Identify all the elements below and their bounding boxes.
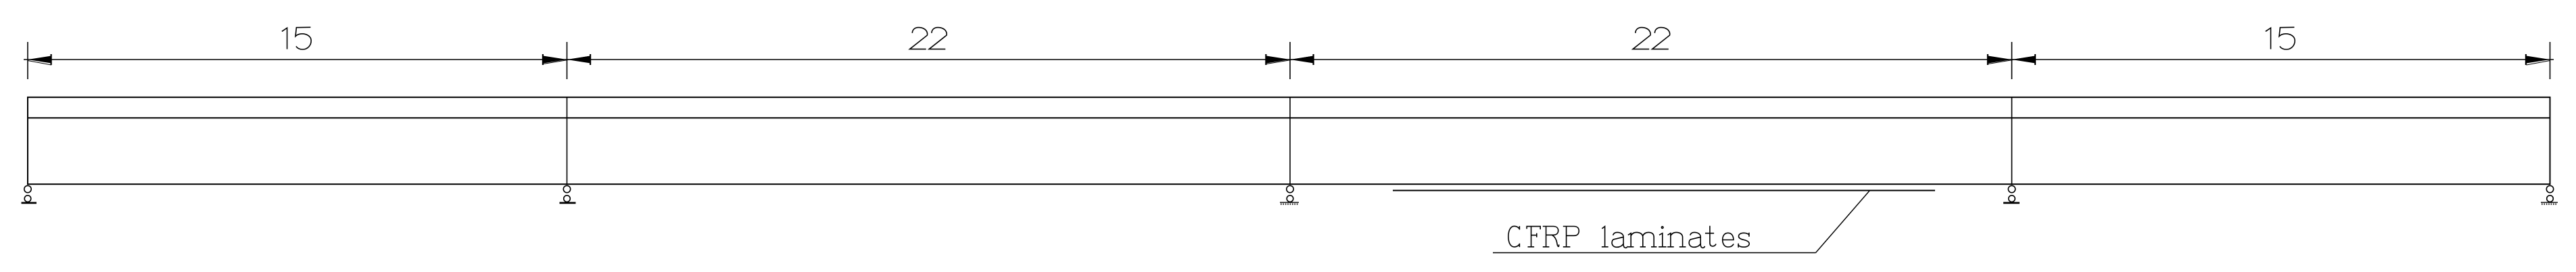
letter F: [1527, 227, 1540, 247]
support 5 at x=3771.5: [2541, 185, 2558, 204]
letter P: [1564, 227, 1579, 247]
span label 22: [1633, 28, 1670, 49]
beam inner line: [28, 117, 2550, 118]
letter n: [1668, 232, 1686, 246]
support 2 at x=838.5: [560, 185, 576, 204]
letter s: [1738, 233, 1749, 247]
support 3 at x=1908: [1280, 185, 1299, 204]
i dot: [1661, 227, 1663, 229]
extension line at x=2975.5: [2011, 42, 2013, 79]
letter R: [1544, 227, 1559, 247]
beam vertical at x=2975.5: [2011, 97, 2013, 184]
letter e: [1723, 233, 1734, 247]
extension line at x=1908: [1289, 42, 1291, 79]
support 1 at x=41: [22, 185, 37, 204]
leader diagonal: [1816, 191, 1870, 253]
arrowheads at x=2975.5 (bowtie): [1987, 54, 2036, 65]
arrowhead left end pointing left: [28, 54, 52, 65]
extension line at x=3771.5: [2550, 42, 2551, 79]
extension line at x=838.5: [567, 42, 568, 79]
dimension line: [24, 59, 2554, 60]
beam vertical at x=1908: [1289, 97, 1291, 184]
letter C: [1508, 226, 1520, 247]
span label 15: [2266, 27, 2295, 49]
arrowheads at x=1908 (bowtie): [1265, 54, 1314, 65]
extension line at x=41: [27, 42, 28, 79]
arrowheads at x=838.5 (bowtie): [542, 54, 591, 65]
leader underline: [1493, 252, 1816, 254]
arrowhead right end pointing right: [2525, 54, 2550, 65]
letter i: [1659, 233, 1666, 247]
span label 15: [282, 27, 311, 49]
letter a: [1612, 232, 1627, 248]
beam outline: [28, 97, 2550, 185]
span label 22: [910, 28, 947, 49]
letter t: [1706, 227, 1716, 246]
letter l: [1602, 227, 1608, 247]
support 4 at x=2975.5: [2003, 185, 2020, 204]
label CFRP laminates: [1508, 226, 1749, 248]
letter a (second): [1689, 232, 1704, 248]
letter m: [1629, 232, 1656, 246]
CFRP laminate strip: [1393, 190, 1935, 191]
beam vertical at x=838.5: [567, 97, 568, 184]
